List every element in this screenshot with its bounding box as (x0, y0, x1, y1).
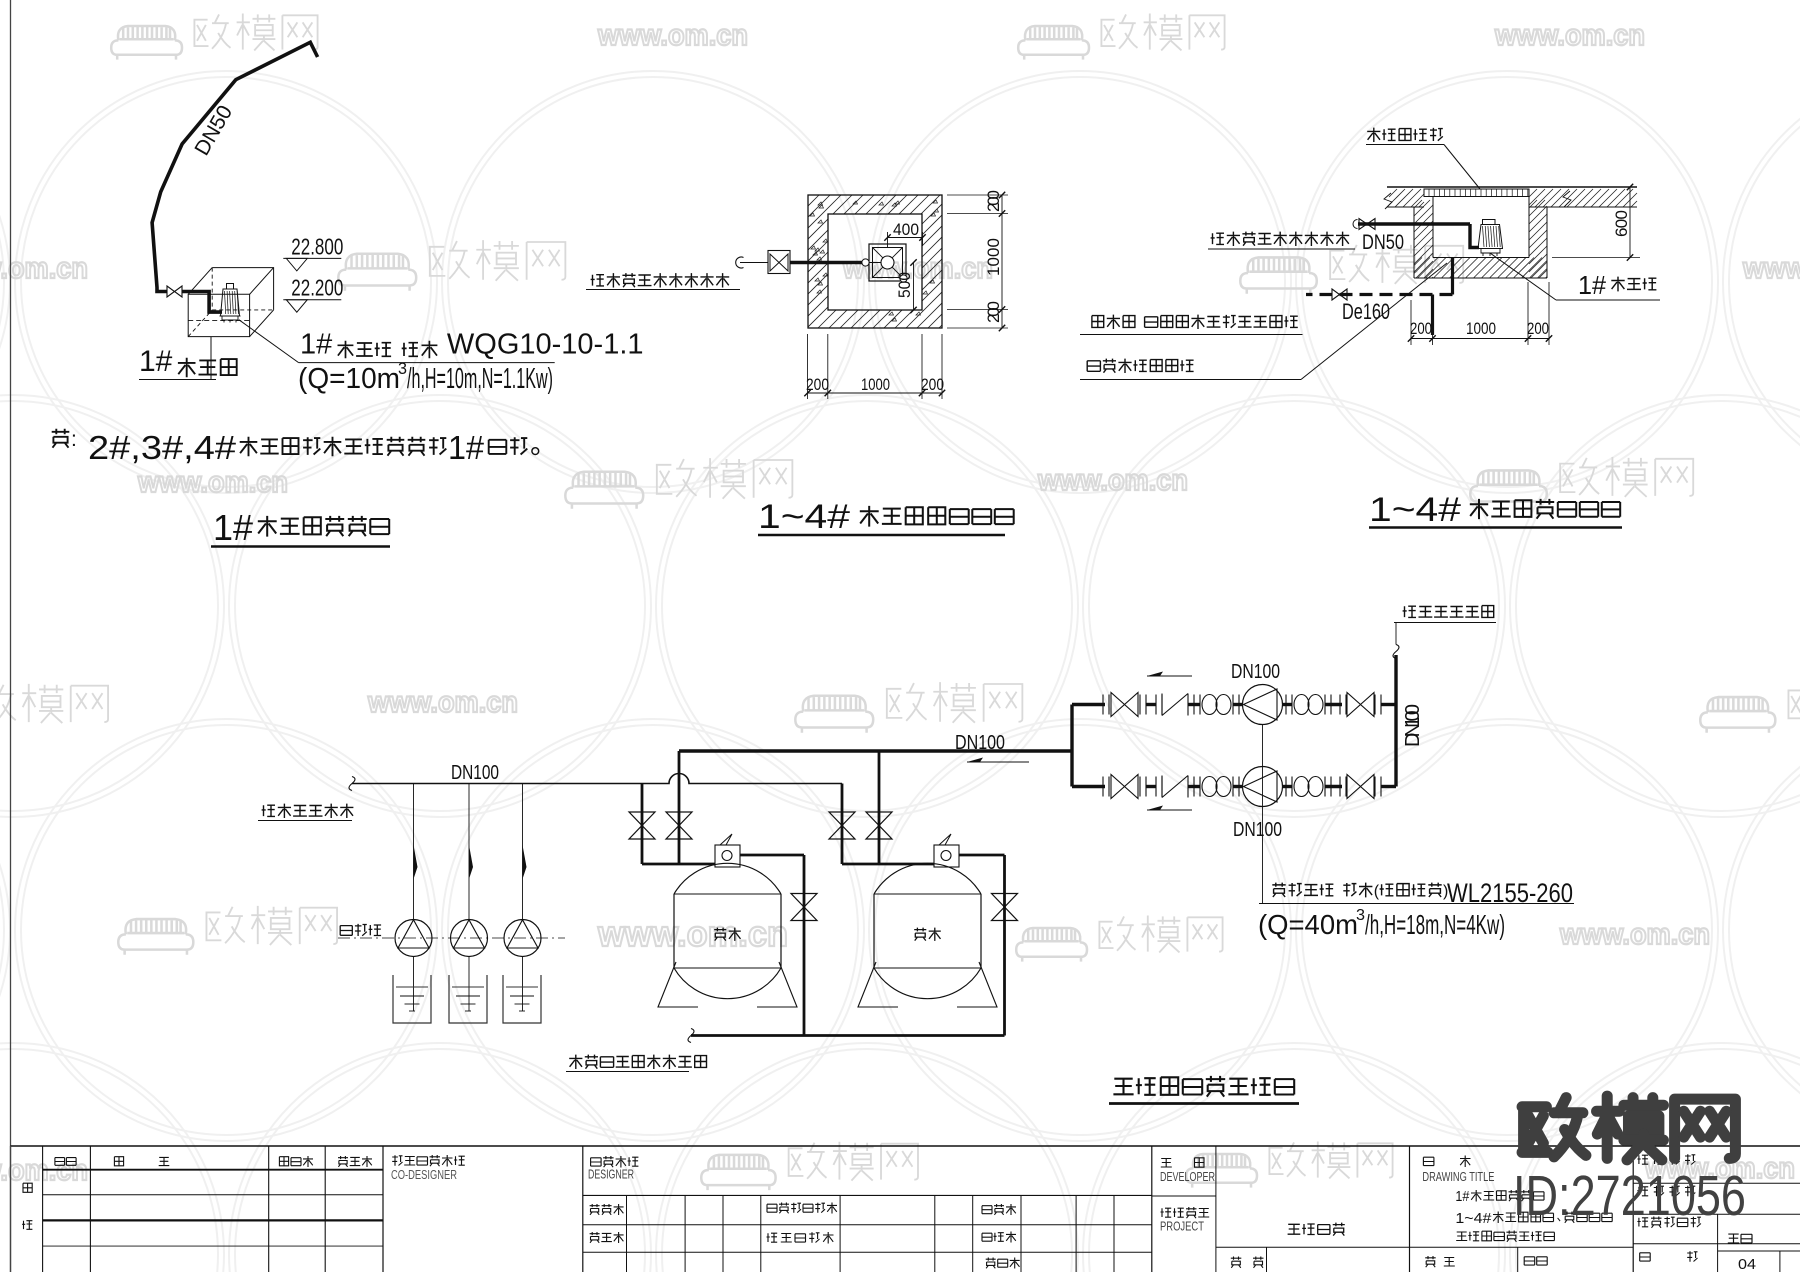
big watermark 欧模网 (1522, 1096, 1735, 1160)
svg-text:DESIGNER: DESIGNER (588, 1168, 634, 1182)
river intake line DN100 with crossover hump (352, 774, 842, 784)
svg-text:1#: 1# (1578, 270, 1607, 300)
svg-text:www.om.cn: www.om.cn (1559, 918, 1710, 951)
submersible pump 1 symbol (227, 284, 234, 290)
ground line (1387, 186, 1637, 188)
dosing pumps 加药泵 with suction lines (413, 784, 415, 920)
svg-text:DN100: DN100 (1231, 661, 1280, 683)
svg-text:200: 200 (984, 190, 1003, 212)
svg-text:www.om.cn: www.om.cn (1494, 19, 1645, 52)
label 设置不锈钢隔网 (1087, 361, 1100, 372)
drain pipe De160 dashed (1306, 293, 1453, 296)
pit wall right hatch (1529, 200, 1547, 278)
svg-text:3: 3 (398, 359, 407, 378)
sheet left frame line (10, 0, 12, 1272)
svg-text:www.om.cn: www.om.cn (842, 252, 993, 285)
svg-text:1~4#: 1~4# (1369, 491, 1461, 529)
cell 业主 DEVELOPER (1161, 1159, 1172, 1168)
drain pipe vertical (1451, 258, 1454, 295)
svg-text:www.om.cn: www.om.cn (1037, 464, 1188, 497)
cell 工程项目 PROJECT 景观设计 (1161, 1208, 1172, 1217)
svg-text:www.om.cn: www.om.cn (137, 466, 288, 499)
svg-text::: : (71, 428, 77, 451)
svg-text:www.om.cn: www.om.cn (1742, 252, 1800, 285)
svg-text:1#: 1# (300, 328, 332, 360)
svg-text:22.800: 22.800 (291, 233, 343, 259)
cell 水施 04 (1728, 1234, 1739, 1243)
svg-text:(Q=40m: (Q=40m (1258, 909, 1358, 940)
submersible pump in section (1483, 220, 1496, 225)
pump box in plan (869, 244, 906, 281)
svg-text:DN100: DN100 (1402, 704, 1424, 747)
leader + label 循环水泵 WL2155-260 (1262, 725, 1264, 904)
svg-text:DRAWING TITLE: DRAWING TITLE (1422, 1170, 1494, 1184)
svg-text:3: 3 (1356, 907, 1365, 924)
svg-text:04: 04 (1738, 1256, 1756, 1272)
label 反冲洗水排至集水坑 (569, 1055, 582, 1069)
backwash drain line (691, 1034, 1005, 1037)
svg-text:WL2155-260: WL2155-260 (1447, 878, 1573, 908)
sand filter tank 1 沙缸 (673, 894, 675, 968)
watermark logos (111, 14, 317, 60)
svg-text:WQG10-10-1.1: WQG10-10-1.1 (447, 328, 644, 360)
valve on DN50 pipe (167, 286, 182, 297)
label 接至每段的起端起端 + DN50 (1211, 233, 1224, 244)
svg-text:1000: 1000 (861, 375, 890, 394)
title 水处理设备流程图 (1113, 1079, 1133, 1095)
svg-text:1#: 1# (448, 429, 485, 466)
svg-text:400: 400 (893, 220, 919, 239)
sand filter tank 2 沙缸 (873, 894, 875, 968)
svg-text:DN100: DN100 (1233, 819, 1282, 841)
outlet riser DN100 (1394, 655, 1397, 787)
stainless cover plate (1424, 189, 1529, 197)
pit wall left hatch (1414, 200, 1433, 278)
revision table 修订 (23, 1183, 32, 1192)
svg-text:CO-DESIGNER: CO-DESIGNER (391, 1168, 457, 1182)
circulation pump manifold left (1070, 705, 1073, 787)
cell 合作设计单位 CO-DESIGNER (392, 1155, 402, 1166)
sump pit 1 3D box (188, 294, 249, 336)
svg-text:200: 200 (1527, 319, 1549, 338)
svg-text:600: 600 (1612, 210, 1631, 237)
svg-text:www.om.cn: www.om.cn (0, 252, 88, 285)
dim 600 (1629, 187, 1631, 258)
svg-text:www.om.cn: www.om.cn (597, 19, 748, 52)
svg-text:/h,H=10m,N=1.1Kw): /h,H=10m,N=1.1Kw) (407, 363, 553, 395)
dim 400 (888, 237, 923, 239)
top slab hatch right (1529, 189, 1637, 207)
svg-text:200: 200 (984, 301, 1003, 323)
main pipe to circulation pumps (679, 749, 1072, 752)
discharge pipe DN50 (1358, 222, 1470, 225)
svg-text:ID:2721056: ID:2721056 (1513, 1164, 1746, 1228)
circulation pump branch lower: valves, check valve, flex joints, pump (1072, 785, 1105, 788)
svg-text:1000: 1000 (1466, 319, 1496, 338)
cell 图名 DRAWING TITLE (1423, 1157, 1434, 1165)
svg-text:1~4#: 1~4# (1455, 1210, 1492, 1227)
label 放空管 就近排至小区雨水管网 / De160 (1092, 316, 1104, 328)
top slab hatch left (1389, 189, 1424, 207)
sand filter 2 feed pipes + valves (841, 784, 844, 865)
right dims 200/1000/200 (947, 194, 1008, 196)
cells 审批人/审定人/设计总负责人/专业负责人/设计人/校对人/制图人 (590, 1204, 600, 1215)
svg-text:1000: 1000 (984, 238, 1003, 276)
svg-text:22.200: 22.200 (291, 275, 343, 301)
svg-text:200: 200 (1410, 319, 1432, 338)
chemical tanks (393, 975, 431, 1023)
bottom dims 200/1000/200 (1410, 300, 1412, 345)
svg-text:/h,H=18m,N=4Kw): /h,H=18m,N=4Kw) (1365, 909, 1505, 940)
label 接至每段的起端起端 (591, 275, 604, 286)
svg-text:DN50: DN50 (1362, 231, 1404, 254)
svg-text:1~4#: 1~4# (758, 498, 850, 536)
circulation pump branch upper: valves, check valve, flex joints, pump (1072, 703, 1105, 706)
valve box in plan (768, 251, 790, 274)
pit bottom slab hatch (1414, 258, 1547, 279)
leader + label 1#潜水泵 (1490, 253, 1556, 300)
label 接河底出水管 (1403, 606, 1416, 617)
svg-text:De160: De160 (1342, 299, 1390, 324)
leader + label 1#潜水泵 一台 WQG10-10-1.1 (239, 320, 299, 363)
dosing pump centerline (338, 937, 565, 939)
svg-text:www.om.cn: www.om.cn (597, 913, 788, 954)
svg-text:200: 200 (921, 375, 944, 394)
flow arrow lower branch (1147, 809, 1192, 811)
pipe DN50 riser polyline (152, 42, 318, 291)
svg-text:(Q=10m: (Q=10m (298, 363, 400, 395)
svg-text:1#: 1# (213, 507, 253, 548)
feed pipe in plan (790, 261, 862, 265)
valve on discharge pipe (1359, 219, 1375, 230)
svg-text:www.om.cn: www.om.cn (367, 686, 518, 719)
label 不锈钢盖板 (1367, 128, 1380, 142)
svg-text:200: 200 (806, 375, 829, 394)
valve on drain pipe (1332, 289, 1347, 300)
cells 工程编号/档案编号/电子文件号/图号 (1637, 1155, 1648, 1164)
dim 500 (913, 263, 915, 311)
flow arrow main (967, 761, 1029, 763)
bottom dims 200/1000/200 (807, 334, 809, 399)
svg-text:DN100: DN100 (955, 732, 1005, 754)
svg-text:2#,3#,4#: 2#,3#,4# (88, 429, 237, 466)
svg-text:(: ( (1374, 883, 1380, 900)
label 接至河流起端 (262, 805, 275, 816)
title block top border (11, 1145, 1800, 1147)
svg-text:DEVELOPER: DEVELOPER (1160, 1170, 1215, 1184)
cell 设计单位 DESIGNER (591, 1158, 602, 1166)
sand filter 1 feed pipes + valves (641, 784, 644, 865)
svg-text:500: 500 (895, 272, 914, 298)
svg-text:PROJECT: PROJECT (1160, 1220, 1204, 1234)
note 2#,3#,4# same as 1# (52, 429, 70, 448)
svg-text:1#: 1# (1455, 1188, 1470, 1205)
flow arrow upper branch (1147, 675, 1192, 677)
svg-text:1#: 1# (139, 345, 173, 378)
pipe from valve into pit (182, 292, 223, 313)
svg-text:DN100: DN100 (451, 762, 499, 784)
label 加药泵 (340, 926, 352, 936)
